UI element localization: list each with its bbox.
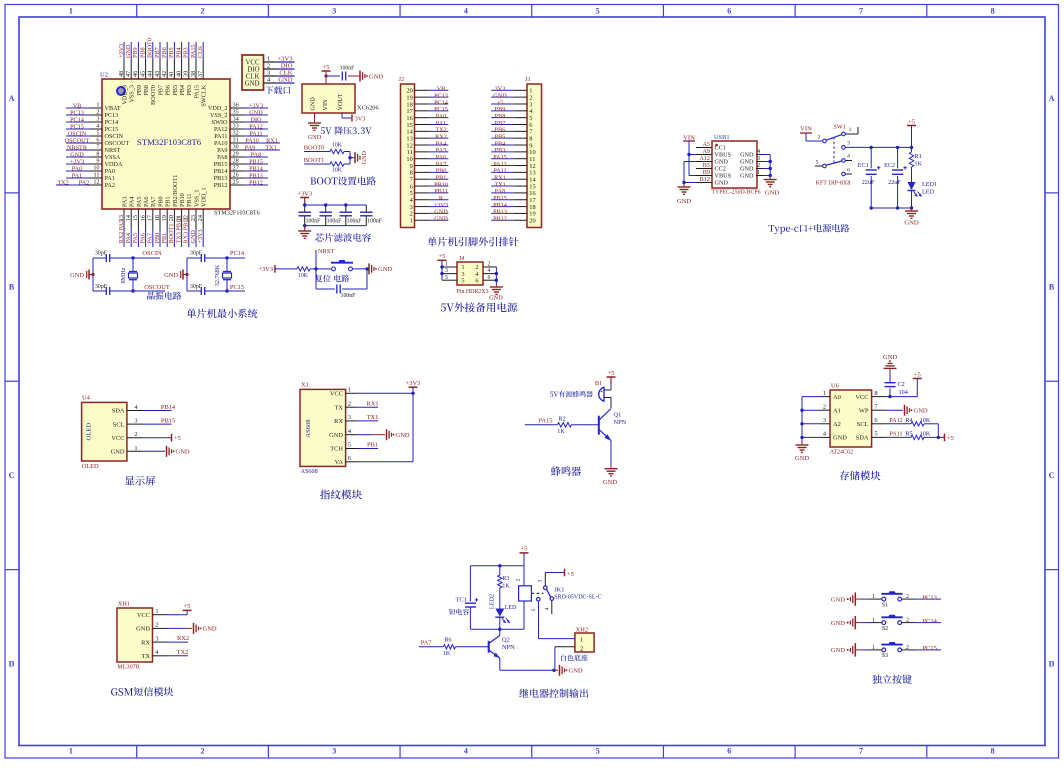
svg-text:CLK: CLK — [197, 45, 204, 58]
svg-text:XC6206: XC6206 — [357, 105, 379, 112]
svg-text:PA3: PA3 — [121, 197, 128, 207]
svg-text:PB6: PB6 — [161, 47, 168, 58]
svg-text:B9: B9 — [703, 169, 710, 176]
svg-text:VDDA: VDDA — [105, 161, 123, 168]
svg-text:28: 28 — [233, 158, 239, 165]
svg-text:PA12: PA12 — [889, 417, 903, 424]
svg-text:PB12: PB12 — [214, 182, 228, 189]
svg-text:27: 27 — [233, 165, 239, 172]
svg-text:PB15: PB15 — [214, 161, 228, 168]
svg-text:XH2: XH2 — [576, 627, 588, 634]
svg-text:2: 2 — [580, 646, 583, 653]
svg-text:PA5: PA5 — [136, 197, 143, 207]
svg-text:OSCIN: OSCIN — [142, 250, 162, 257]
svg-text:OSCOUT: OSCOUT — [144, 284, 170, 291]
svg-text:DIO: DIO — [281, 63, 293, 70]
svg-text:23: 23 — [190, 215, 197, 221]
svg-text:R6: R6 — [444, 637, 451, 644]
svg-text:VOUT: VOUT — [337, 93, 344, 110]
svg-text:+5: +5 — [439, 253, 446, 260]
svg-text:18: 18 — [154, 215, 161, 221]
svg-text:1: 1 — [445, 262, 448, 268]
svg-text:VDD_3: VDD_3 — [121, 85, 128, 105]
svg-text:6: 6 — [348, 455, 351, 462]
svg-text:15: 15 — [132, 215, 139, 221]
svg-text:GND: GND — [125, 44, 132, 58]
svg-text:GND: GND — [70, 151, 84, 158]
svg-text:S1: S1 — [882, 602, 888, 608]
svg-text:BOOT1: BOOT1 — [304, 157, 325, 164]
svg-text:4: 4 — [464, 7, 468, 16]
svg-text:10: 10 — [93, 165, 99, 172]
svg-text:36: 36 — [233, 102, 239, 109]
svg-text:GND: GND — [190, 230, 197, 244]
svg-text:104: 104 — [899, 389, 908, 396]
svg-text:37: 37 — [197, 71, 204, 77]
svg-text:6: 6 — [847, 167, 850, 173]
svg-text:PB3: PB3 — [183, 47, 190, 58]
svg-text:GND: GND — [369, 73, 383, 80]
svg-text:EC2: EC2 — [884, 162, 895, 169]
svg-text:30: 30 — [233, 144, 239, 151]
svg-text:J1: J1 — [525, 76, 531, 83]
svg-text:1: 1 — [849, 127, 852, 133]
svg-text:PA15: PA15 — [193, 85, 200, 99]
svg-text:+5: +5 — [521, 546, 528, 553]
svg-text:JK1: JK1 — [554, 587, 564, 594]
svg-text:GND: GND — [831, 647, 845, 654]
svg-text:20: 20 — [529, 218, 535, 225]
svg-text:C: C — [1049, 471, 1055, 480]
svg-text:2: 2 — [348, 400, 351, 407]
svg-text:8: 8 — [874, 390, 877, 397]
svg-text:LED: LED — [505, 604, 518, 611]
svg-text:GND: GND — [914, 408, 928, 415]
svg-text:PB3: PB3 — [186, 85, 193, 96]
svg-text:SCL: SCL — [113, 421, 125, 428]
svg-text:2: 2 — [155, 622, 158, 629]
svg-text:8: 8 — [96, 151, 99, 158]
svg-text:PA7: PA7 — [421, 640, 433, 647]
svg-text:PA10: PA10 — [214, 140, 228, 147]
svg-text:TC1: TC1 — [456, 597, 467, 604]
svg-text:39: 39 — [183, 71, 190, 77]
svg-text:A1: A1 — [833, 407, 841, 414]
svg-text:4: 4 — [464, 747, 468, 756]
svg-text:2: 2 — [201, 747, 205, 756]
svg-text:GND: GND — [740, 159, 754, 166]
svg-text:PB5: PB5 — [172, 85, 179, 96]
svg-text:9: 9 — [96, 158, 99, 165]
svg-text:+5: +5 — [908, 118, 915, 125]
svg-text:RX2 PA3: RX2 PA3 — [118, 220, 125, 244]
svg-text:PC14: PC14 — [70, 116, 84, 123]
svg-text:42: 42 — [161, 71, 168, 77]
svg-text:TX1: TX1 — [367, 414, 379, 421]
svg-text:VCC: VCC — [137, 612, 150, 619]
svg-text:3: 3 — [823, 417, 826, 424]
svg-text:GND: GND — [603, 479, 618, 486]
svg-text:2: 2 — [823, 403, 826, 410]
svg-text:OSCOUT: OSCOUT — [65, 137, 90, 144]
svg-text:A9: A9 — [702, 148, 710, 155]
svg-text:+3V3: +3V3 — [297, 190, 312, 197]
svg-text:PC14: PC14 — [105, 119, 119, 126]
svg-text:1: 1 — [96, 102, 99, 109]
svg-text:STM32F103C8T6: STM32F103C8T6 — [137, 137, 202, 147]
svg-text:PC14: PC14 — [230, 250, 245, 257]
svg-text:PB4: PB4 — [179, 85, 186, 96]
svg-text:GND: GND — [765, 190, 780, 197]
svg-text:J2: J2 — [399, 76, 405, 83]
svg-text:GND: GND — [434, 216, 448, 223]
svg-text:1: 1 — [267, 56, 270, 63]
svg-text:SDA: SDA — [112, 408, 125, 415]
svg-text:PA2: PA2 — [79, 179, 89, 186]
svg-text:OLED: OLED — [86, 423, 93, 441]
svg-text:VDD_2: VDD_2 — [208, 105, 228, 112]
svg-text:PB2/BOOT1: PB2/BOOT1 — [172, 175, 179, 207]
svg-text:VSS_1: VSS_1 — [193, 189, 200, 207]
svg-text:+3V3: +3V3 — [118, 44, 125, 58]
svg-text:VBUS: VBUS — [715, 173, 732, 180]
svg-text:VB: VB — [73, 102, 82, 109]
svg-text:5: 5 — [596, 747, 600, 756]
svg-text:3: 3 — [538, 579, 544, 582]
svg-text:11: 11 — [94, 172, 100, 179]
svg-text:+5: +5 — [608, 370, 615, 377]
svg-text:46: 46 — [132, 71, 139, 77]
svg-text:1: 1 — [872, 618, 875, 624]
svg-text:GND: GND — [136, 626, 150, 633]
svg-text:7: 7 — [859, 7, 863, 16]
svg-text:40: 40 — [175, 71, 182, 77]
svg-text:PA11: PA11 — [214, 133, 227, 140]
svg-text:1: 1 — [69, 747, 73, 756]
svg-text:BOOT0: BOOT0 — [150, 85, 157, 105]
svg-text:+3V3: +3V3 — [197, 229, 204, 243]
svg-text:A12: A12 — [699, 155, 710, 162]
svg-text:PB1: PB1 — [165, 196, 172, 207]
svg-text:PB8: PB8 — [143, 85, 150, 96]
svg-text:PB0: PB0 — [154, 233, 161, 244]
svg-text:22uF: 22uF — [888, 179, 901, 186]
svg-text:OSCIN: OSCIN — [68, 130, 87, 137]
svg-text:26: 26 — [233, 172, 239, 179]
svg-text:CC2: CC2 — [715, 166, 726, 173]
svg-text:X1: X1 — [301, 382, 309, 389]
svg-text:+3V3: +3V3 — [406, 380, 421, 387]
svg-text:PA12: PA12 — [214, 126, 228, 133]
svg-text:PA7: PA7 — [147, 233, 154, 243]
svg-text:XH1: XH1 — [118, 601, 130, 608]
svg-text:PB15: PB15 — [249, 158, 263, 165]
svg-text:KFT DIP-8X8: KFT DIP-8X8 — [816, 181, 851, 187]
svg-text:4: 4 — [545, 607, 551, 610]
svg-text:PA1: PA1 — [72, 172, 82, 179]
svg-text:8: 8 — [991, 7, 995, 16]
svg-text:PB14: PB14 — [214, 168, 228, 175]
svg-text:GND: GND — [249, 109, 263, 116]
svg-text:2: 2 — [488, 262, 491, 268]
svg-text:20: 20 — [168, 215, 175, 221]
svg-text:44: 44 — [147, 71, 154, 77]
svg-text:100nF: 100nF — [341, 293, 357, 299]
svg-text:A5: A5 — [702, 141, 710, 148]
svg-text:GND: GND — [278, 77, 293, 84]
svg-text:RX1: RX1 — [366, 400, 378, 407]
svg-text:GND: GND — [795, 455, 810, 462]
svg-text:BOOT0: BOOT0 — [147, 38, 154, 58]
svg-text:4: 4 — [96, 123, 99, 130]
svg-text:PA10: PA10 — [245, 137, 259, 144]
svg-text:RX1: RX1 — [266, 137, 278, 144]
svg-text:3: 3 — [757, 155, 760, 162]
svg-text:1: 1 — [757, 169, 760, 176]
svg-text:8MHz: 8MHz — [120, 267, 127, 283]
svg-text:GND: GND — [245, 80, 260, 87]
svg-text:A: A — [9, 94, 15, 103]
svg-text:GND: GND — [176, 449, 190, 456]
svg-text:5: 5 — [816, 160, 819, 166]
svg-text:+5: +5 — [914, 371, 921, 378]
svg-text:GND: GND — [329, 432, 343, 439]
svg-text:BOOT1: BOOT1 — [168, 224, 175, 244]
svg-text:PA6: PA6 — [143, 197, 150, 207]
svg-text:PC13: PC13 — [105, 112, 119, 119]
svg-text:5: 5 — [461, 277, 464, 284]
svg-text:33: 33 — [233, 123, 239, 130]
svg-text:PA0: PA0 — [72, 165, 82, 172]
svg-text:16: 16 — [139, 215, 146, 221]
svg-text:3: 3 — [332, 7, 336, 16]
svg-text:3: 3 — [847, 141, 850, 147]
svg-text:VBUS: VBUS — [715, 152, 732, 159]
svg-text:Q1: Q1 — [614, 412, 622, 419]
svg-text:SRD-05VDC-SL-C: SRD-05VDC-SL-C — [554, 594, 601, 600]
svg-text:PA2: PA2 — [105, 182, 115, 189]
svg-text:PC15: PC15 — [70, 123, 84, 130]
svg-text:PA12: PA12 — [249, 123, 263, 130]
svg-text:R3: R3 — [502, 575, 509, 582]
svg-text:SDA: SDA — [856, 435, 869, 442]
svg-text:Pin HDR2X3: Pin HDR2X3 — [457, 289, 489, 295]
svg-text:10K: 10K — [332, 168, 343, 174]
svg-text:PB9: PB9 — [132, 47, 139, 58]
svg-text:R2: R2 — [558, 415, 565, 422]
svg-text:A: A — [1049, 94, 1055, 103]
svg-text:STM32F103C8T6: STM32F103C8T6 — [214, 210, 260, 217]
svg-text:VIN: VIN — [322, 99, 329, 111]
svg-text:PB9: PB9 — [136, 85, 143, 96]
svg-text:PB5: PB5 — [168, 47, 175, 58]
svg-text:+3V3: +3V3 — [249, 102, 263, 109]
svg-text:5: 5 — [874, 431, 877, 438]
svg-text:1: 1 — [872, 594, 875, 600]
svg-text:32.768K: 32.768K — [214, 264, 221, 286]
svg-text:SW1: SW1 — [833, 124, 846, 131]
svg-text:PB0: PB0 — [157, 196, 164, 207]
svg-text:5: 5 — [531, 608, 537, 611]
svg-text:48: 48 — [118, 71, 125, 77]
svg-text:NRSTR: NRSTR — [67, 144, 88, 151]
svg-text:A2: A2 — [833, 421, 841, 428]
svg-text:PC15: PC15 — [105, 126, 119, 133]
svg-text:J4: J4 — [459, 255, 465, 262]
svg-text:PB13: PB13 — [214, 175, 228, 182]
svg-text:S3: S3 — [882, 653, 888, 659]
svg-text:VIN: VIN — [800, 126, 812, 133]
svg-text:PB4: PB4 — [175, 47, 182, 58]
svg-text:5: 5 — [96, 130, 99, 137]
svg-text:19: 19 — [161, 215, 168, 221]
svg-text:PA4: PA4 — [125, 233, 132, 243]
svg-text:PA11: PA11 — [249, 130, 262, 137]
svg-text:PB1: PB1 — [161, 233, 168, 244]
svg-text:PA7: PA7 — [150, 197, 157, 207]
svg-text:12: 12 — [93, 179, 99, 186]
svg-text:4: 4 — [757, 148, 760, 155]
svg-text:U6: U6 — [831, 383, 839, 390]
svg-text:B: B — [1049, 283, 1055, 292]
svg-text:PB11: PB11 — [186, 193, 193, 207]
svg-text:PB8: PB8 — [139, 47, 146, 58]
svg-text:A0: A0 — [833, 394, 841, 401]
svg-text:CLK: CLK — [246, 73, 260, 80]
svg-text:45: 45 — [139, 71, 146, 77]
svg-text:PA4: PA4 — [129, 197, 136, 207]
svg-text:SWIO: SWIO — [212, 119, 228, 126]
svg-text:OLED: OLED — [82, 463, 99, 470]
svg-text:1: 1 — [823, 390, 826, 397]
svg-text:GND: GND — [308, 134, 322, 141]
svg-text:1: 1 — [69, 7, 73, 16]
svg-text:OSCIN: OSCIN — [105, 133, 124, 140]
svg-text:VSSA: VSSA — [105, 154, 121, 161]
svg-text:RX2: RX2 — [177, 635, 189, 642]
svg-text:GND: GND — [378, 266, 392, 273]
svg-text:RX: RX — [141, 639, 150, 646]
svg-text:1K: 1K — [443, 650, 451, 657]
svg-text:D: D — [1049, 659, 1055, 668]
svg-text:100nF: 100nF — [340, 66, 356, 72]
svg-text:CLK: CLK — [279, 70, 292, 77]
svg-text:PB12: PB12 — [493, 216, 507, 223]
svg-text:PB7: PB7 — [154, 47, 161, 58]
svg-text:1K: 1K — [557, 428, 565, 435]
svg-text:10K: 10K — [298, 273, 309, 279]
svg-text:PA9: PA9 — [217, 147, 227, 154]
svg-text:GND: GND — [740, 152, 754, 159]
svg-text:U2: U2 — [100, 72, 108, 79]
svg-text:WP: WP — [859, 407, 869, 414]
svg-text:VCC: VCC — [855, 394, 868, 401]
svg-text:1K: 1K — [915, 161, 923, 168]
svg-text:AT24C02: AT24C02 — [830, 450, 853, 456]
svg-text:34: 34 — [233, 116, 239, 123]
svg-text:GND: GND — [70, 272, 84, 279]
svg-text:30pF: 30pF — [95, 251, 108, 257]
svg-text:100nF: 100nF — [367, 219, 383, 225]
svg-text:PA15: PA15 — [190, 44, 197, 58]
svg-text:6: 6 — [874, 417, 877, 424]
svg-text:+3V3: +3V3 — [258, 266, 273, 273]
svg-text:43: 43 — [154, 71, 161, 77]
svg-text:TX3 PB10: TX3 PB10 — [175, 217, 182, 244]
svg-text:C: C — [9, 471, 15, 480]
svg-text:PB14: PB14 — [161, 404, 176, 411]
svg-text:VCC: VCC — [246, 59, 260, 66]
svg-text:SCL: SCL — [857, 421, 869, 428]
svg-text:D: D — [9, 659, 15, 668]
svg-text:TX1: TX1 — [265, 144, 276, 151]
svg-text:100nF: 100nF — [306, 219, 322, 225]
svg-text:5: 5 — [445, 275, 448, 281]
svg-text:6: 6 — [727, 747, 731, 756]
svg-text:PA8: PA8 — [251, 151, 261, 158]
svg-text:PA8: PA8 — [217, 154, 227, 161]
svg-text:+5: +5 — [174, 435, 181, 442]
svg-text:PC13: PC13 — [923, 594, 937, 601]
svg-text:3: 3 — [134, 418, 137, 425]
svg-text:PA1: PA1 — [105, 175, 115, 182]
svg-text:4: 4 — [488, 268, 491, 274]
svg-text:NRST: NRST — [105, 147, 121, 154]
svg-text:GND: GND — [489, 295, 503, 302]
svg-text:PB12: PB12 — [249, 179, 263, 186]
svg-text:1: 1 — [872, 645, 875, 651]
svg-text:1: 1 — [155, 608, 158, 615]
svg-text:VA: VA — [335, 459, 344, 466]
svg-text:BOOT0: BOOT0 — [304, 144, 325, 151]
svg-text:TX2: TX2 — [57, 179, 68, 186]
svg-text:USB1: USB1 — [714, 134, 730, 141]
svg-text:GND: GND — [361, 150, 368, 164]
svg-text:GND: GND — [904, 220, 919, 227]
svg-text:GND: GND — [677, 198, 692, 205]
svg-text:6: 6 — [488, 275, 491, 281]
svg-text:25: 25 — [233, 179, 239, 186]
svg-text:PB7: PB7 — [157, 85, 164, 96]
svg-text:VSS_2: VSS_2 — [210, 112, 228, 119]
svg-text:30pF: 30pF — [190, 284, 203, 290]
svg-text:PA6: PA6 — [139, 233, 146, 243]
svg-text:PA5: PA5 — [132, 233, 139, 243]
svg-text:3: 3 — [332, 747, 336, 756]
svg-text:PC15: PC15 — [230, 284, 244, 291]
svg-text:29: 29 — [233, 151, 239, 158]
svg-text:PB14: PB14 — [249, 165, 263, 172]
svg-text:24: 24 — [197, 215, 204, 221]
svg-text:GND: GND — [715, 159, 729, 166]
svg-text:5: 5 — [348, 442, 351, 449]
svg-text:+5: +5 — [323, 64, 330, 71]
svg-text:LED: LED — [922, 189, 935, 196]
svg-text:RX3 PB11: RX3 PB11 — [183, 217, 190, 244]
svg-text:DIO: DIO — [251, 116, 263, 123]
svg-text:41: 41 — [168, 71, 175, 77]
svg-text:GND: GND — [111, 449, 125, 456]
svg-text:5: 5 — [596, 7, 600, 16]
svg-text:2: 2 — [134, 431, 137, 438]
svg-text:TYPEC-250D-BCP6: TYPEC-250D-BCP6 — [712, 190, 761, 196]
svg-text:100nF: 100nF — [347, 219, 363, 225]
svg-text:TX: TX — [141, 653, 150, 660]
svg-text:1: 1 — [134, 445, 137, 452]
svg-text:VBAT: VBAT — [105, 105, 121, 112]
svg-text:B1: B1 — [595, 380, 602, 387]
svg-text:17: 17 — [147, 215, 154, 221]
